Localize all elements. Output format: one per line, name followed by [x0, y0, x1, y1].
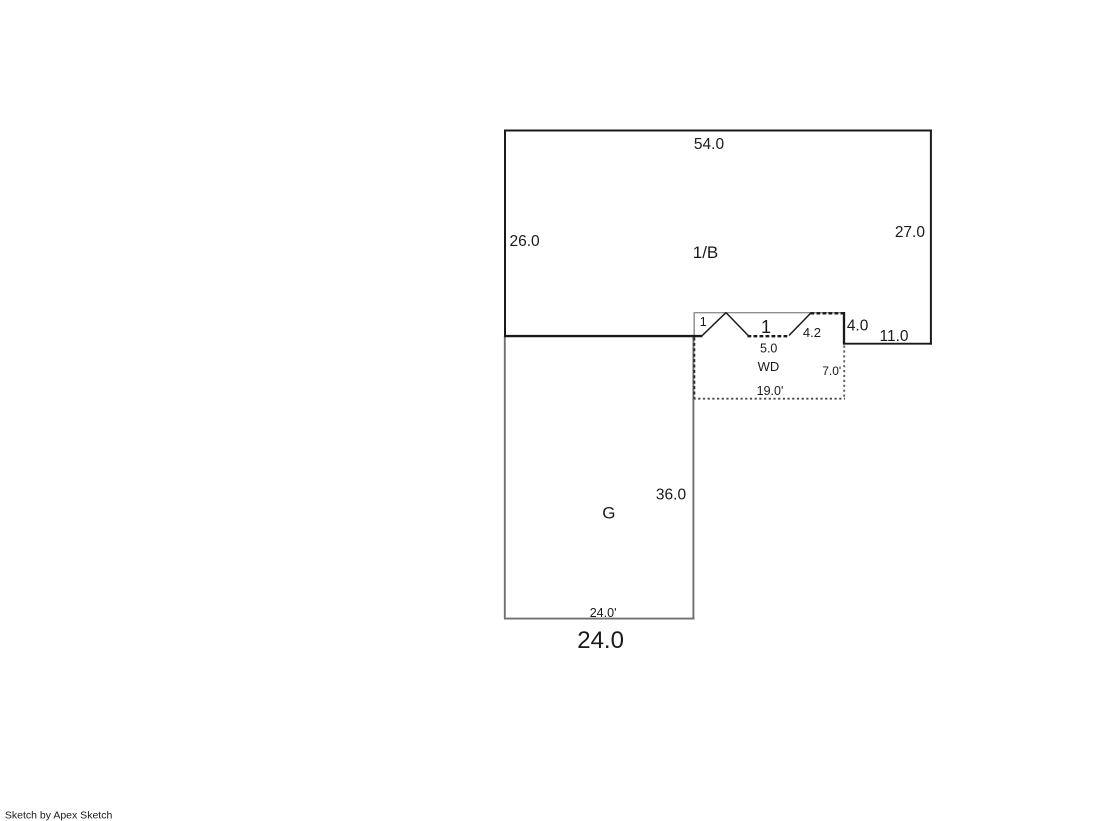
- svg-text:26.0: 26.0: [510, 233, 541, 250]
- svg-text:24.0': 24.0': [590, 606, 617, 620]
- svg-text:7.0': 7.0': [822, 364, 841, 378]
- svg-text:Sketch by Apex Sketch: Sketch by Apex Sketch: [5, 810, 113, 821]
- svg-text:36.0: 36.0: [656, 487, 687, 504]
- svg-text:27.0: 27.0: [895, 224, 926, 241]
- svg-text:24.0: 24.0: [577, 627, 624, 654]
- svg-text:WD: WD: [758, 359, 780, 374]
- svg-text:G: G: [602, 504, 615, 523]
- svg-text:1: 1: [761, 317, 771, 337]
- svg-text:4.2: 4.2: [803, 325, 821, 340]
- svg-text:4.0: 4.0: [847, 318, 869, 335]
- svg-text:19.0': 19.0': [757, 384, 784, 398]
- svg-text:11.0: 11.0: [879, 328, 908, 345]
- svg-text:54.0: 54.0: [694, 136, 725, 153]
- svg-text:1/B: 1/B: [693, 243, 719, 262]
- svg-text:5.0: 5.0: [760, 342, 777, 356]
- svg-text:1: 1: [700, 315, 707, 329]
